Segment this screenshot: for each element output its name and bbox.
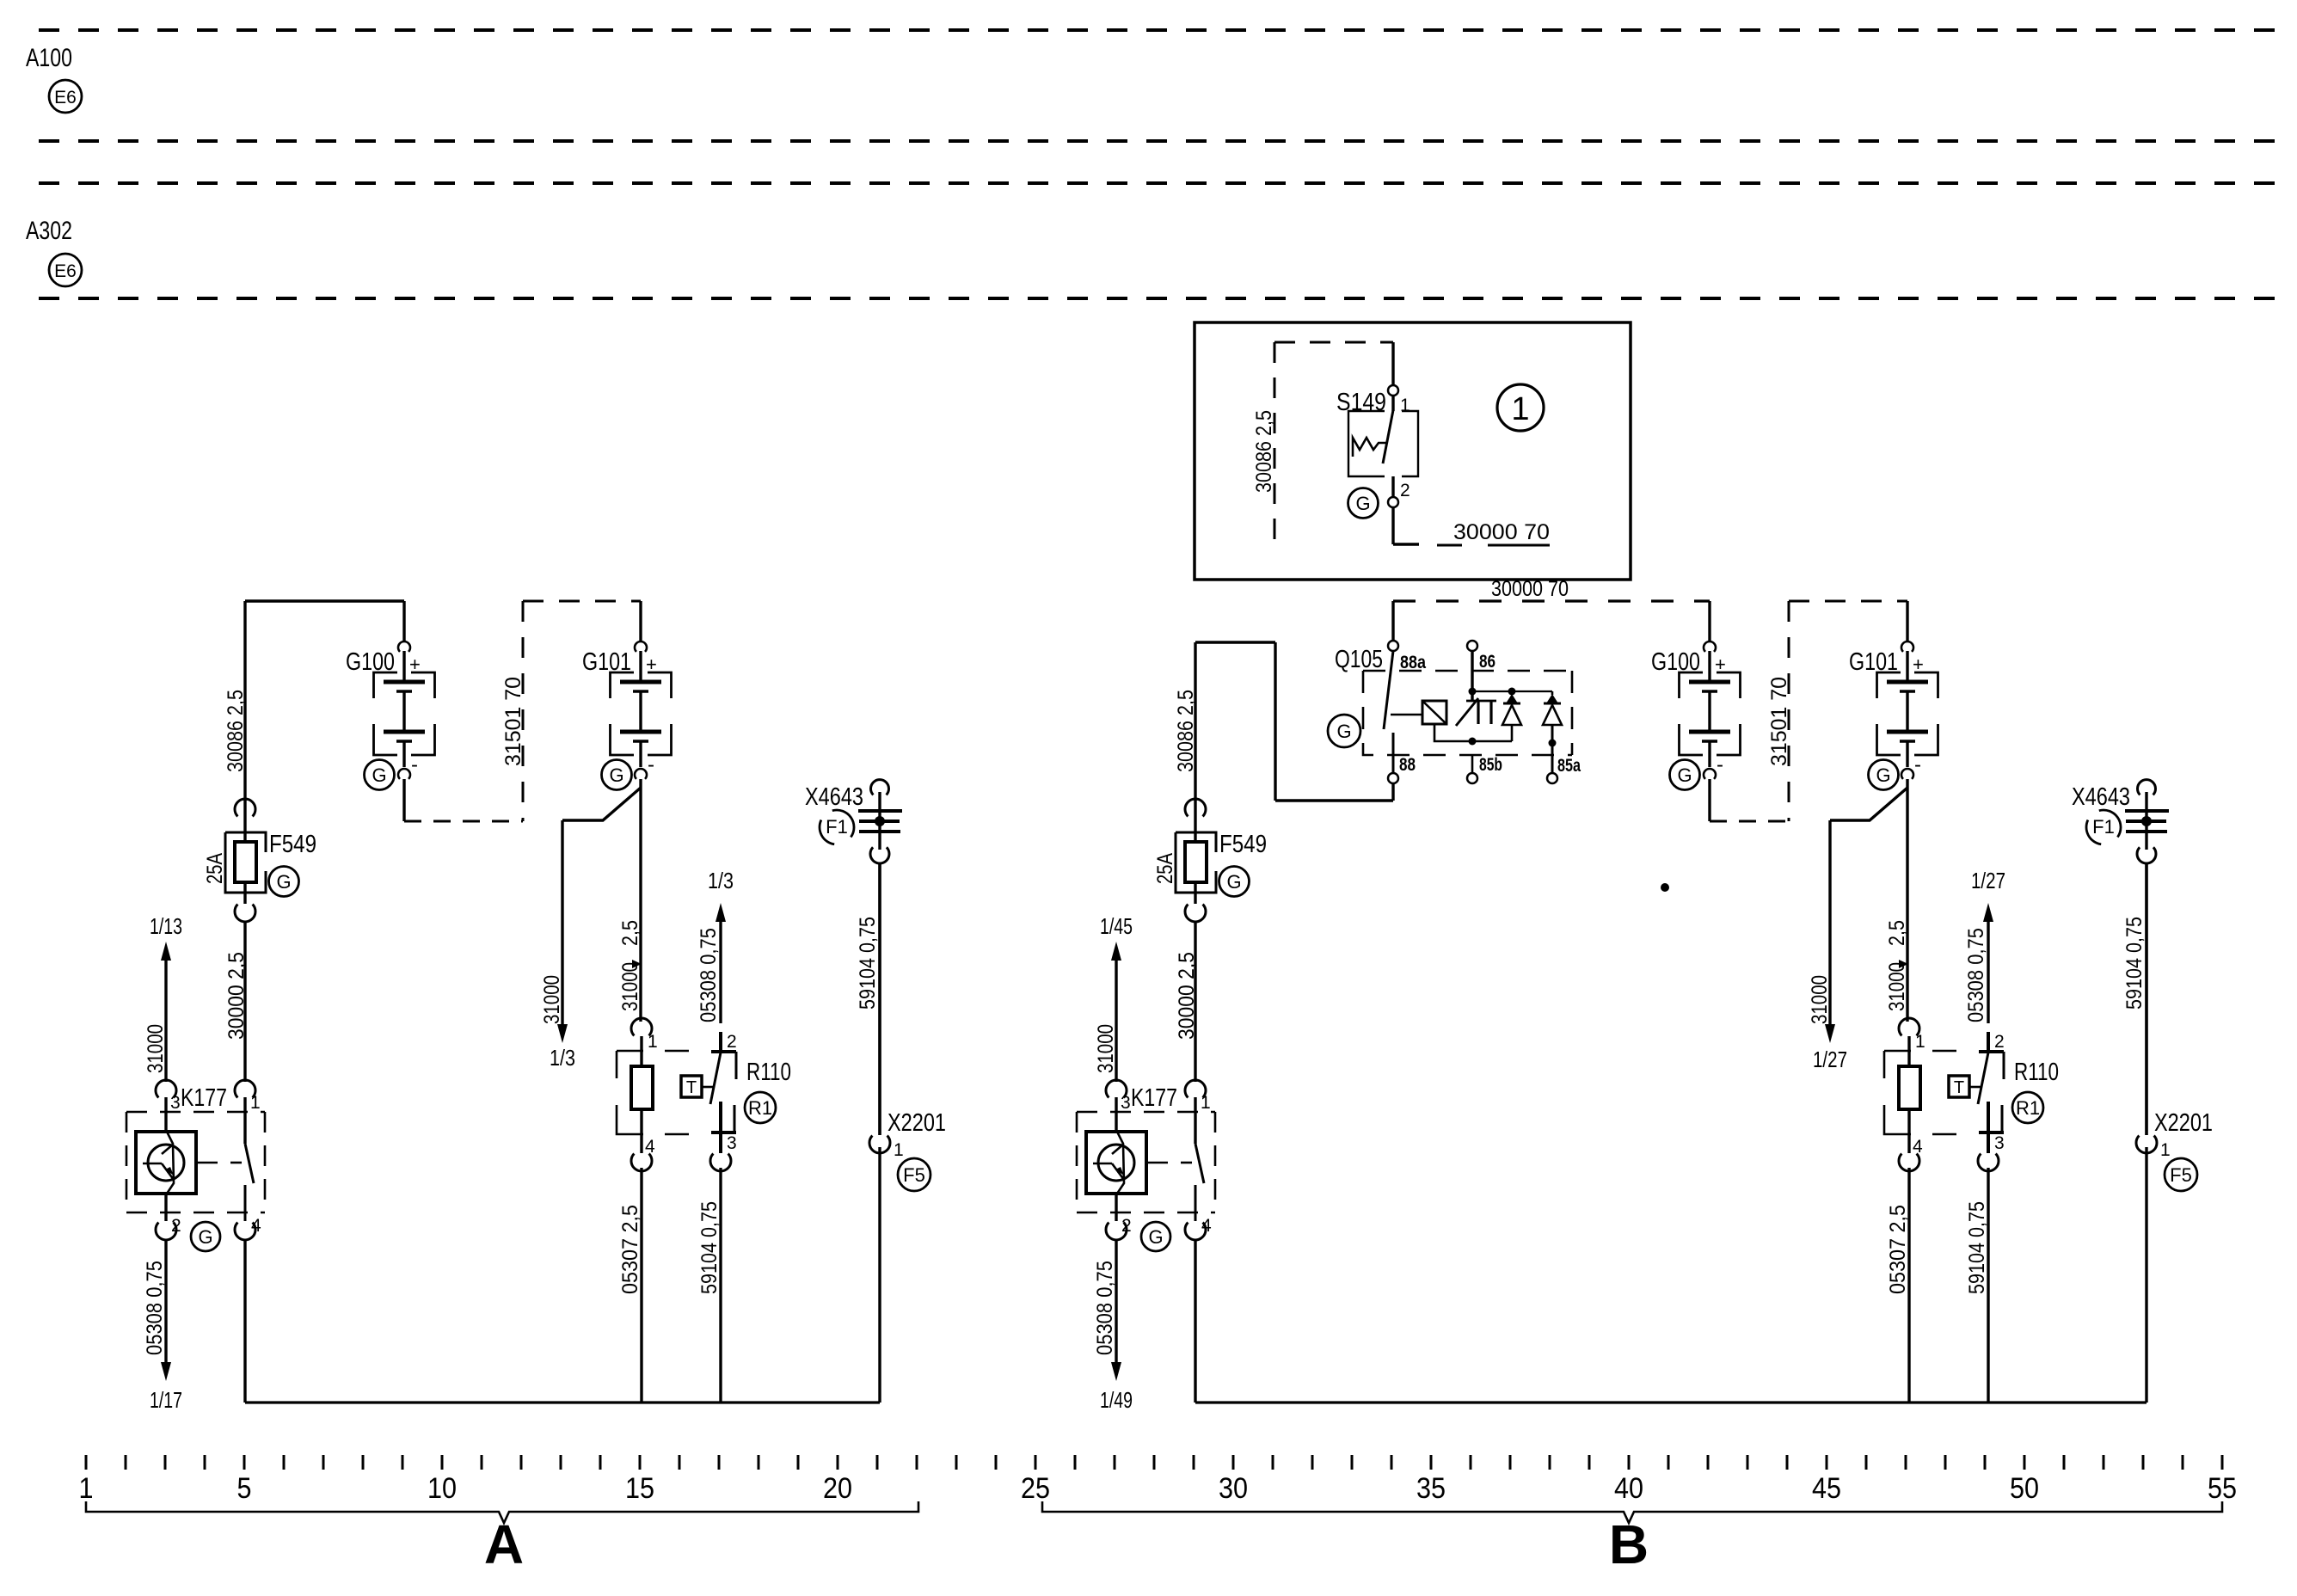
svg-text:A302: A302 bbox=[26, 217, 72, 245]
svg-text:K177: K177 bbox=[1131, 1084, 1177, 1112]
svg-text:1: 1 bbox=[1915, 1032, 1925, 1052]
svg-text:05307 2,5: 05307 2,5 bbox=[618, 1205, 642, 1294]
ground indicator G (G101 B) bbox=[1869, 760, 1899, 790]
svg-text:G: G bbox=[1148, 1226, 1163, 1248]
svg-text:1/13: 1/13 bbox=[150, 913, 182, 939]
wire 30000 2,5 (B) fuse to K177 bbox=[1194, 922, 1196, 1082]
wire label 30086 2,5 (inset) bbox=[1252, 410, 1276, 493]
component label R110 (B) bbox=[2014, 1059, 2059, 1086]
pin 2 (R110 A) bbox=[727, 1032, 737, 1052]
wire label 30000 70 (inset) bbox=[1437, 520, 1550, 545]
wire dashed bus line 1 (top of A100 band) bbox=[39, 28, 2275, 32]
svg-text:88a: 88a bbox=[1400, 653, 1426, 672]
pin 1 (R110 A) bbox=[648, 1032, 658, 1052]
svg-text:R1: R1 bbox=[2016, 1097, 2040, 1119]
svg-text:40: 40 bbox=[1614, 1472, 1643, 1505]
svg-text:G: G bbox=[1876, 764, 1890, 786]
node 1/27 (B destination) bbox=[1813, 1047, 1847, 1072]
fuse F549 (A) 25A bbox=[225, 799, 266, 922]
wire K177 pin4 to bottom rail (B) bbox=[1194, 1240, 1196, 1403]
component label S149 bbox=[1336, 389, 1386, 416]
ground indicator G (G100 B) bbox=[1670, 760, 1700, 790]
wire 59104 0,75 (B R110) bbox=[1987, 1168, 1989, 1403]
svg-text:R110: R110 bbox=[2014, 1059, 2059, 1086]
wire 05307 2,5 (B) bbox=[1907, 1168, 1910, 1403]
wire 59104 0,75 (A X4643) bbox=[878, 863, 881, 1135]
callout circle 1 bbox=[1497, 384, 1544, 431]
svg-text:31000: 31000 bbox=[1808, 975, 1832, 1024]
svg-text:-: - bbox=[648, 753, 654, 777]
pin 85a (Q105) bbox=[1557, 756, 1581, 776]
svg-text:T: T bbox=[686, 1078, 697, 1097]
pin 1 (K177 A) bbox=[250, 1093, 261, 1113]
pin 2 (K177 A) bbox=[171, 1216, 181, 1236]
svg-text:55: 55 bbox=[2208, 1472, 2237, 1505]
svg-text:30000 70: 30000 70 bbox=[1491, 577, 1569, 601]
svg-text:2: 2 bbox=[1121, 1216, 1132, 1236]
battery G101 (A) bbox=[582, 601, 672, 779]
svg-text:4: 4 bbox=[251, 1216, 261, 1236]
svg-text:3: 3 bbox=[727, 1133, 737, 1153]
component label F549 (B) bbox=[1219, 831, 1267, 858]
svg-text:X2201: X2201 bbox=[2154, 1109, 2213, 1137]
svg-text:10: 10 bbox=[427, 1472, 457, 1505]
pin 4 (R110 B) bbox=[1913, 1137, 1923, 1157]
svg-text:+: + bbox=[409, 654, 421, 675]
wire label 30000 70 (bus) bbox=[1491, 577, 1569, 601]
brace A bbox=[86, 1501, 918, 1523]
wire label 31000 (B K177) bbox=[1094, 1024, 1118, 1073]
svg-text:G101: G101 bbox=[582, 648, 631, 676]
svg-text:1: 1 bbox=[250, 1093, 261, 1113]
wire 30086 top run (A) bbox=[245, 601, 404, 801]
svg-text:3: 3 bbox=[170, 1093, 181, 1113]
pin 85b (Q105) bbox=[1479, 755, 1502, 775]
svg-text:Q105: Q105 bbox=[1335, 646, 1383, 673]
section label A bbox=[484, 1513, 524, 1575]
fuse F549 (B) 25A bbox=[1176, 799, 1216, 922]
svg-text:F5: F5 bbox=[2170, 1164, 2192, 1186]
wire label 31000 2,5 (B) bbox=[1885, 920, 1909, 1011]
svg-text:31000: 31000 bbox=[618, 962, 642, 1011]
connector X4643 (B) bbox=[2125, 780, 2169, 863]
svg-text:85a: 85a bbox=[1557, 756, 1581, 776]
svg-text:1: 1 bbox=[2160, 1140, 2171, 1160]
wire label 05307 2,5 (A) bbox=[618, 1205, 642, 1294]
svg-text:G: G bbox=[1336, 721, 1351, 742]
svg-text:25A: 25A bbox=[1153, 853, 1177, 884]
wire label 05308 0,75 (A R110) bbox=[697, 928, 721, 1022]
pin 4 (K177 B) bbox=[1201, 1216, 1212, 1236]
svg-text:G: G bbox=[1677, 764, 1692, 786]
svg-text:31000: 31000 bbox=[540, 975, 564, 1024]
pin 2 (S149) bbox=[1400, 481, 1410, 500]
inset detail box 1 bbox=[1195, 322, 1631, 580]
svg-text:20: 20 bbox=[823, 1472, 852, 1505]
svg-text:1/3: 1/3 bbox=[550, 1045, 575, 1071]
connector circle E6 (A100) bbox=[49, 80, 82, 113]
wire label 59104 0,75 (B X4643) bbox=[2122, 917, 2147, 1010]
svg-text:F549: F549 bbox=[1219, 831, 1267, 858]
value label 25A (B) bbox=[1153, 853, 1177, 884]
pin 3 (R110 B) bbox=[1994, 1133, 2005, 1153]
svg-text:G: G bbox=[1226, 871, 1241, 893]
svg-text:25: 25 bbox=[1021, 1472, 1050, 1505]
pin 3 (K177 A) bbox=[170, 1093, 181, 1113]
relay Q105 bbox=[1363, 601, 1572, 801]
svg-text:31000: 31000 bbox=[1094, 1024, 1118, 1073]
wire label 30086 2,5 (B) bbox=[1174, 690, 1198, 772]
component label X4643 (A) bbox=[805, 783, 863, 811]
svg-text:G101: G101 bbox=[1849, 648, 1898, 676]
wire label 31501 70 (A) bbox=[501, 677, 525, 766]
svg-text:59104 0,75: 59104 0,75 bbox=[1965, 1201, 1989, 1294]
component label X4643 (B) bbox=[2072, 783, 2130, 811]
svg-text:K177: K177 bbox=[181, 1084, 227, 1112]
svg-text:E6: E6 bbox=[54, 88, 77, 107]
svg-text:5: 5 bbox=[237, 1472, 252, 1505]
svg-text:G: G bbox=[198, 1226, 212, 1248]
wire G100 minus to 31501 (B) bbox=[1710, 779, 1789, 821]
wire label 31000 (A left arrow) bbox=[540, 975, 564, 1024]
wire label 05308 0,75 (A K177) bbox=[143, 1261, 167, 1355]
svg-text:30086 2,5: 30086 2,5 bbox=[1174, 690, 1198, 772]
svg-text:1/27: 1/27 bbox=[1971, 868, 2005, 893]
svg-text:1: 1 bbox=[648, 1032, 658, 1052]
svg-text:+: + bbox=[1913, 654, 1924, 675]
transistor module K177 (B) bbox=[1077, 1080, 1215, 1240]
pin 86 (Q105) bbox=[1479, 652, 1496, 672]
svg-text:59104 0,75: 59104 0,75 bbox=[2122, 917, 2147, 1010]
wire 05308 to 1/17 arrow (A) bbox=[161, 1240, 171, 1381]
battery G101 (B) bbox=[1849, 601, 1938, 779]
svg-text:31000: 31000 bbox=[1885, 962, 1909, 1011]
svg-text:1/49: 1/49 bbox=[1100, 1387, 1133, 1413]
svg-text:-: - bbox=[411, 753, 418, 777]
node 1/45 (B destination) bbox=[1100, 913, 1133, 939]
ground indicator G (G100 A) bbox=[365, 760, 395, 790]
pin 1 (S149) bbox=[1400, 396, 1410, 415]
svg-text:1/3: 1/3 bbox=[708, 868, 734, 893]
svg-text:1/27: 1/27 bbox=[1813, 1047, 1847, 1072]
ground indicator G (S149) bbox=[1348, 488, 1379, 519]
node 1/3 (A destination) bbox=[550, 1045, 575, 1071]
svg-text:25A: 25A bbox=[203, 853, 227, 884]
battery G100 (A) bbox=[346, 601, 435, 779]
svg-text:30000 70: 30000 70 bbox=[1453, 520, 1550, 544]
svg-text:30: 30 bbox=[1219, 1472, 1248, 1505]
svg-text:X2201: X2201 bbox=[887, 1109, 946, 1137]
wire 05308 to 1/49 arrow (B) bbox=[1111, 1240, 1121, 1381]
svg-text:31501 70: 31501 70 bbox=[501, 677, 525, 766]
pin 1 (R110 B) bbox=[1915, 1032, 1925, 1052]
switch S149 bbox=[1348, 342, 1419, 544]
svg-text:F549: F549 bbox=[269, 831, 316, 858]
section label B bbox=[1609, 1513, 1649, 1575]
ground indicator G (F549 A) bbox=[269, 867, 299, 897]
wire K177 pin4 to bottom rail (A) bbox=[243, 1240, 246, 1403]
battery G100 (B) bbox=[1651, 601, 1741, 779]
svg-text:4: 4 bbox=[1201, 1216, 1212, 1236]
locator circle F1 (A) bbox=[820, 810, 854, 844]
connector X4643 (A) bbox=[858, 780, 902, 863]
node 1/27 (B R110 destination) bbox=[1971, 868, 2005, 893]
wire 05308 to 1/3 arrow (A R110) bbox=[716, 903, 726, 1023]
svg-text:1/17: 1/17 bbox=[150, 1387, 182, 1413]
wire 31000 to 1/3 arrow (A) bbox=[557, 820, 568, 1043]
locator circle F5 (B) bbox=[2165, 1158, 2197, 1191]
component label X2201 (B) bbox=[2154, 1109, 2213, 1137]
wire 31000 to 1/13 arrow (A) bbox=[161, 942, 171, 1082]
svg-text:1: 1 bbox=[1400, 396, 1410, 415]
svg-text:2: 2 bbox=[1400, 481, 1410, 500]
ground indicator G (K177 A) bbox=[191, 1222, 220, 1251]
svg-text:T: T bbox=[1954, 1078, 1964, 1097]
wire G101 minus junction (B) bbox=[1830, 779, 1907, 1022]
svg-text:2: 2 bbox=[1994, 1032, 2005, 1052]
wire 30086 top run (B) bbox=[1195, 642, 1393, 801]
component label X2201 (A) bbox=[887, 1109, 946, 1137]
svg-text:G100: G100 bbox=[346, 648, 395, 676]
stray dot bbox=[1661, 883, 1669, 892]
svg-text:30000 2,5: 30000 2,5 bbox=[224, 952, 249, 1040]
component label Q105 bbox=[1335, 646, 1383, 673]
svg-text:30086 2,5: 30086 2,5 bbox=[224, 690, 248, 772]
ground indicator G (Q105) bbox=[1328, 715, 1360, 747]
value label 25A (A) bbox=[203, 853, 227, 884]
locator circle F5 (A) bbox=[898, 1158, 930, 1191]
svg-text:G: G bbox=[1355, 493, 1370, 514]
pin 88a (Q105) bbox=[1400, 653, 1426, 672]
svg-text:A100: A100 bbox=[26, 44, 72, 72]
wire 30000 2,5 (A) fuse to K177 bbox=[243, 922, 246, 1082]
connector X2201 (B) bbox=[2136, 863, 2157, 1403]
component label K177 (B) bbox=[1131, 1084, 1177, 1112]
connector X2201 (A) bbox=[869, 863, 890, 1403]
svg-text:05308 0,75: 05308 0,75 bbox=[697, 928, 721, 1022]
connector circle E6 (A302) bbox=[49, 254, 82, 286]
wire 05308 to 1/27 arrow (B R110) bbox=[1983, 903, 1993, 1023]
wire 31000 to 1/45 arrow (B) bbox=[1111, 942, 1121, 1082]
svg-text:F5: F5 bbox=[903, 1164, 925, 1186]
svg-text:-: - bbox=[1717, 753, 1723, 777]
pin 2 (R110 B) bbox=[1994, 1032, 2005, 1052]
svg-text:G: G bbox=[609, 764, 623, 786]
svg-text:1: 1 bbox=[1511, 391, 1529, 427]
wire G101 minus junction (A) bbox=[562, 779, 641, 1022]
svg-text:31501 70: 31501 70 bbox=[1767, 677, 1791, 766]
wire label 59104 0,75 (A X4643) bbox=[856, 917, 880, 1010]
pin 4 (K177 A) bbox=[251, 1216, 261, 1236]
wire bottom rail (A) bbox=[245, 1401, 880, 1403]
pin 4 (R110 A) bbox=[645, 1137, 655, 1157]
wire bottom rail (B) bbox=[1195, 1401, 2147, 1403]
wire G100 minus to 31501 (A) bbox=[404, 779, 523, 821]
wire dashed bus line 4 (bottom of A302 band) bbox=[39, 297, 2275, 300]
wire 31501 dashed (A) bbox=[523, 601, 641, 821]
svg-text:X4643: X4643 bbox=[805, 783, 863, 811]
node 1/13 (A destination) bbox=[150, 913, 182, 939]
svg-text:05308 0,75: 05308 0,75 bbox=[143, 1261, 167, 1355]
wire label 30000 2,5 (A) bbox=[224, 952, 249, 1040]
svg-text:1/45: 1/45 bbox=[1100, 913, 1133, 939]
wire label 59104 0,75 (A R110) bbox=[697, 1201, 722, 1294]
svg-text:1: 1 bbox=[79, 1472, 94, 1505]
svg-text:35: 35 bbox=[1416, 1472, 1446, 1505]
svg-text:1: 1 bbox=[1201, 1093, 1211, 1113]
wire 59104 0,75 (A R110) bbox=[719, 1168, 722, 1403]
pin 88 (Q105) bbox=[1399, 755, 1416, 775]
node 1/17 (A destination) bbox=[150, 1387, 182, 1413]
grid ruler numbers bbox=[79, 1472, 2238, 1505]
svg-text:F1: F1 bbox=[826, 816, 848, 838]
svg-text:1: 1 bbox=[894, 1140, 904, 1160]
wire label 30086 2,5 (A) bbox=[224, 690, 248, 772]
svg-text:2: 2 bbox=[727, 1032, 737, 1052]
heater resistor R110 (B) bbox=[1884, 1018, 2004, 1171]
svg-text:R110: R110 bbox=[746, 1059, 791, 1086]
svg-text:3: 3 bbox=[1121, 1093, 1131, 1113]
svg-text:45: 45 bbox=[1812, 1472, 1841, 1505]
heater resistor R110 (A) bbox=[617, 1018, 736, 1171]
svg-text:G: G bbox=[372, 764, 386, 786]
locator circle F1 (B) bbox=[2086, 810, 2121, 844]
wire label 31000 (A K177) bbox=[144, 1024, 168, 1073]
pin 1 (K177 B) bbox=[1201, 1093, 1211, 1113]
wire dashed bus line 3 (top of A302 band) bbox=[39, 181, 2275, 185]
component label R110 (A) bbox=[746, 1059, 791, 1086]
svg-text:05308 0,75: 05308 0,75 bbox=[1964, 928, 1988, 1022]
wire dashed bus line 2 (bottom of A100 band) bbox=[39, 139, 2275, 143]
pin 2 (K177 B) bbox=[1121, 1216, 1132, 1236]
locator circle R1 (A) bbox=[745, 1092, 776, 1123]
wire label 05308 0,75 (B R110) bbox=[1964, 928, 1988, 1022]
wire label 05307 2,5 (B) bbox=[1886, 1205, 1910, 1294]
svg-text:05308 0,75: 05308 0,75 bbox=[1093, 1261, 1117, 1355]
node A302 label bbox=[26, 217, 72, 245]
svg-text:4: 4 bbox=[1913, 1137, 1923, 1157]
svg-text:+: + bbox=[646, 654, 657, 675]
wire label 31501 70 (B) bbox=[1767, 677, 1791, 766]
svg-text:59104 0,75: 59104 0,75 bbox=[697, 1201, 722, 1294]
svg-text:31000: 31000 bbox=[144, 1024, 168, 1073]
transistor module K177 (A) bbox=[126, 1080, 265, 1240]
grid ruler ticks bbox=[86, 1455, 2222, 1470]
svg-text:G100: G100 bbox=[1651, 648, 1700, 676]
component label F549 (A) bbox=[269, 831, 316, 858]
svg-text:88: 88 bbox=[1399, 755, 1416, 775]
svg-text:S149: S149 bbox=[1336, 389, 1386, 416]
brace B bbox=[1042, 1501, 2222, 1523]
svg-text:3: 3 bbox=[1994, 1133, 2005, 1153]
wire 59104 0,75 (B X4643) bbox=[2145, 863, 2147, 1135]
svg-text:86: 86 bbox=[1479, 652, 1496, 672]
pin 1 (X2201 B) bbox=[2160, 1140, 2171, 1160]
wire label 05308 0,75 (B K177) bbox=[1093, 1261, 1117, 1355]
wire 30000 70 dashed bus bbox=[1393, 599, 1710, 602]
svg-text:30086 2,5: 30086 2,5 bbox=[1252, 410, 1276, 493]
svg-text:+: + bbox=[1715, 654, 1726, 675]
wire 05307 2,5 (A) bbox=[640, 1168, 642, 1403]
component label K177 (A) bbox=[181, 1084, 227, 1112]
svg-text:2: 2 bbox=[171, 1216, 181, 1236]
svg-text:-: - bbox=[1914, 753, 1921, 777]
wire label 31000 (B left arrow) bbox=[1808, 975, 1832, 1024]
wire label 31000 2,5 (A) bbox=[618, 920, 642, 1011]
svg-text:50: 50 bbox=[2010, 1472, 2039, 1505]
svg-text:85b: 85b bbox=[1479, 755, 1502, 775]
wire 30086 dashed (inset) bbox=[1274, 342, 1393, 548]
svg-text:4: 4 bbox=[645, 1137, 655, 1157]
svg-text:B: B bbox=[1609, 1513, 1649, 1575]
svg-text:05307 2,5: 05307 2,5 bbox=[1886, 1205, 1910, 1294]
svg-text:F1: F1 bbox=[2092, 816, 2115, 838]
svg-text:E6: E6 bbox=[54, 261, 77, 281]
locator circle R1 (B) bbox=[2012, 1092, 2043, 1123]
svg-text:2,5: 2,5 bbox=[1885, 920, 1909, 946]
pin 3 (K177 B) bbox=[1121, 1093, 1131, 1113]
svg-text:30000 2,5: 30000 2,5 bbox=[1175, 952, 1199, 1040]
pin 3 (R110 A) bbox=[727, 1133, 737, 1153]
svg-text:59104 0,75: 59104 0,75 bbox=[856, 917, 880, 1010]
pin 1 (X2201 A) bbox=[894, 1140, 904, 1160]
svg-text:G: G bbox=[276, 871, 291, 893]
svg-text:2,5: 2,5 bbox=[618, 920, 642, 946]
svg-text:R1: R1 bbox=[748, 1097, 772, 1119]
svg-text:X4643: X4643 bbox=[2072, 783, 2130, 811]
svg-text:15: 15 bbox=[625, 1472, 654, 1505]
wire label 30000 2,5 (B) bbox=[1175, 952, 1199, 1040]
wire 31000 to 1/27 arrow (B) bbox=[1825, 820, 1835, 1043]
node 1/49 (B destination) bbox=[1100, 1387, 1133, 1413]
node A100 label bbox=[26, 44, 72, 72]
node 1/3 (A R110 destination) bbox=[708, 868, 734, 893]
ground indicator G (K177 B) bbox=[1141, 1222, 1170, 1251]
ground indicator G (G101 A) bbox=[602, 760, 632, 790]
svg-text:A: A bbox=[484, 1513, 524, 1575]
ground indicator G (F549 B) bbox=[1219, 867, 1250, 897]
wire label 59104 0,75 (B R110) bbox=[1965, 1201, 1989, 1294]
wire 31501 dashed (B) bbox=[1789, 601, 1907, 821]
